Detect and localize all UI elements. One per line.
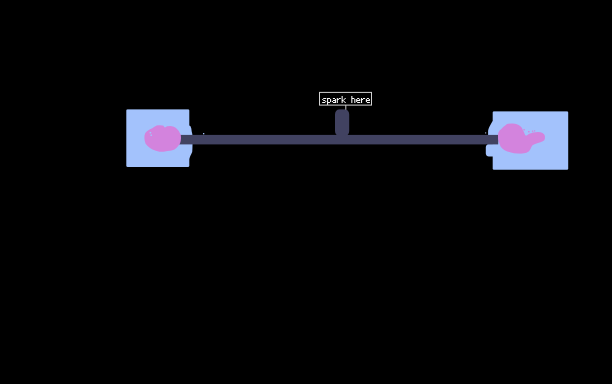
label box <box>320 92 372 105</box>
left electrode box <box>126 109 192 167</box>
pointer tick <box>345 106 346 110</box>
blue speck above rod <box>203 133 204 134</box>
right hand blob <box>498 124 545 154</box>
left hand blob <box>144 125 181 152</box>
brush holes <box>150 132 152 134</box>
right electrode box <box>486 111 568 169</box>
spark gap capsule <box>335 109 349 136</box>
gray speck near right box <box>485 132 486 133</box>
label text "spark here" <box>322 96 370 105</box>
paint specks <box>523 129 525 131</box>
rod <box>179 135 498 145</box>
